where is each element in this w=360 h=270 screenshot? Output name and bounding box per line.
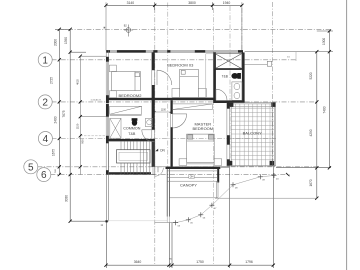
bottom dimension ticks xyxy=(104,264,275,267)
svg-text:5220: 5220 xyxy=(309,72,313,79)
common T&B water closet xyxy=(132,118,138,126)
beam line top right xyxy=(245,63,268,65)
svg-text:BEDROOM 03: BEDROOM 03 xyxy=(167,62,194,67)
top dimension labels xyxy=(127,1,231,5)
step line with spot markers xyxy=(176,176,274,223)
balcony south edge xyxy=(227,165,276,167)
stair treads inside rail xyxy=(140,150,150,163)
grid bubble 6 xyxy=(37,168,51,182)
balcony north wall band xyxy=(229,103,276,107)
svg-text:7675: 7675 xyxy=(62,110,66,117)
master bedroom west wall x=170.6-172.6 xyxy=(171,100,173,167)
grid bubble 4 xyxy=(38,132,52,146)
master bedroom door leaf and swing xyxy=(173,114,187,128)
svg-text:1390: 1390 xyxy=(64,37,68,44)
bedroom2/bedroom03 south wall y=98-100 xyxy=(106,98,216,100)
svg-text:1300: 1300 xyxy=(322,38,326,45)
svg-text:4: 4 xyxy=(43,134,49,145)
svg-text:1100: 1100 xyxy=(161,109,167,112)
svg-text:3140: 3140 xyxy=(127,1,135,5)
spot marker 06 xyxy=(198,212,203,217)
svg-text:2000: 2000 xyxy=(54,39,58,46)
top dimension line xyxy=(106,2,242,52)
svg-text:OH: OH xyxy=(190,176,194,179)
svg-text:BALCONY: BALCONY xyxy=(243,131,262,136)
svg-text:1940: 1940 xyxy=(223,1,231,5)
svg-text:2: 2 xyxy=(42,98,48,109)
svg-text:3640: 3640 xyxy=(134,260,142,264)
balcony tile floor xyxy=(231,104,274,166)
svg-text:COMMON: COMMON xyxy=(123,127,141,131)
svg-text:2400: 2400 xyxy=(53,116,57,123)
grid row 5 dash-dot line xyxy=(37,166,317,168)
spot marker 07 xyxy=(209,203,214,208)
stair south wall y=172.2-174.6 xyxy=(106,172,151,174)
balcony corner posts xyxy=(228,102,276,165)
left dimension chain A x=59.3 xyxy=(55,29,70,174)
grid column dash-dot line x=167.8 xyxy=(167,3,169,169)
master bed xyxy=(187,134,215,164)
right dimension chain outer x=329.4 xyxy=(245,31,333,168)
spot marker 09 xyxy=(258,174,263,179)
svg-text:DN: DN xyxy=(160,149,165,153)
svg-text:900: 900 xyxy=(80,139,84,144)
common T&B lavatory xyxy=(146,118,153,126)
svg-text:1670: 1670 xyxy=(309,179,313,186)
common T&B door xyxy=(142,130,154,142)
svg-text:4290: 4290 xyxy=(309,129,313,136)
bottom dimension line xyxy=(106,166,273,268)
bedroom03 east wall x=213-216 xyxy=(213,52,216,103)
step edge line at y=222.5 xyxy=(155,222,176,224)
small level tick top right xyxy=(295,52,297,61)
north wall solid segments xyxy=(106,50,243,52)
grid row 2 dash-dot line xyxy=(52,101,318,103)
grid row 0 dash-dot line xyxy=(59,28,330,30)
grid column dash-dot line x=213.5 xyxy=(213,8,215,264)
bedroom2 bedside tables xyxy=(109,65,116,72)
spot marker 08 xyxy=(231,182,236,187)
master bedroom SE corner wall stub xyxy=(217,168,219,183)
svg-text:1750: 1750 xyxy=(196,260,204,264)
common T&B south wall y=139.7-141.7 xyxy=(106,139,155,141)
stair handrail xyxy=(117,150,151,163)
bedroom03 bed xyxy=(180,69,199,97)
lower floor west wall below stairs xyxy=(106,175,108,221)
grid column dash-dot line x=155 xyxy=(154,8,156,264)
svg-text:5: 5 xyxy=(28,162,34,173)
svg-text:3800: 3800 xyxy=(188,1,196,5)
bedroom03 door leaf and swing xyxy=(157,70,172,85)
west wall outline xyxy=(106,50,108,174)
west wall solid segments xyxy=(106,57,109,174)
grid column dash-dot line x=242 xyxy=(241,8,243,52)
spot marker 04 xyxy=(272,173,277,178)
left dimension chain B x=70.2 xyxy=(70,29,108,221)
svg-text:1: 1 xyxy=(42,55,48,66)
canopy west double wall xyxy=(167,169,169,217)
canopy OH tag xyxy=(189,175,195,178)
master T&B hatched box xyxy=(215,54,242,69)
stair DN label xyxy=(155,149,158,152)
grid column dash-dot line x=272.6 xyxy=(272,2,274,166)
grid row 6 dash-dot line xyxy=(50,174,290,176)
master T&B water closet xyxy=(231,73,241,79)
svg-text:7400: 7400 xyxy=(322,106,326,113)
common T&B cabinet xyxy=(110,106,142,115)
stair treads xyxy=(121,141,153,174)
spot marker 05 xyxy=(186,217,191,222)
bedroom03 side tables xyxy=(172,89,180,98)
svg-text:3030: 3030 xyxy=(64,195,68,202)
canopy outline xyxy=(167,171,218,198)
left chain B labels (rotated) xyxy=(62,37,68,202)
svg-text:2725: 2725 xyxy=(50,77,54,84)
master T&B south wall xyxy=(216,100,245,103)
svg-text:T&B: T&B xyxy=(222,75,228,79)
right dimension chain inner x=316.8 xyxy=(316,52,318,199)
sheet border line right xyxy=(346,0,348,270)
junction dot lower left xyxy=(106,220,108,222)
master T&B east wall x=242-244.6 xyxy=(242,52,245,103)
tick mark near row0 left xyxy=(104,27,106,29)
svg-text:1796: 1796 xyxy=(245,260,253,264)
master T&B door xyxy=(216,89,227,100)
stairs outline xyxy=(109,141,155,174)
landing door swing to canopy deck xyxy=(155,168,163,176)
master bedside tables xyxy=(179,159,187,166)
balcony east wall xyxy=(271,103,273,166)
north wall outline xyxy=(106,50,243,52)
svg-text:1675: 1675 xyxy=(52,149,56,156)
grid bubble 2 xyxy=(38,95,52,109)
svg-text:T&B: T&B xyxy=(128,132,136,136)
bottom dimension labels xyxy=(134,259,253,265)
terrace edge line y=198.2 xyxy=(215,197,317,199)
top dimension ticks xyxy=(104,4,243,7)
left chain A labels (rotated) xyxy=(50,39,58,173)
grid column dash-dot line x=230 xyxy=(229,6,231,165)
svg-text:1 4 140 4 1: 1 4 140 4 1 xyxy=(91,100,103,102)
left chain A ticks xyxy=(58,28,61,177)
master T&B lavatory counter xyxy=(232,82,242,100)
left chain B ticks xyxy=(69,28,72,223)
grid bubble 1 xyxy=(38,53,52,67)
marker circle on row 0 xyxy=(126,28,131,33)
bedroom03 closet strip along east wall xyxy=(206,54,213,98)
balcony west / master east wall x=226.9-229.7 xyxy=(227,103,230,166)
grid row 1 dash-dot line xyxy=(52,59,297,61)
svg-text:BEDROOM2: BEDROOM2 xyxy=(119,93,143,98)
wall between bedroom2 and bedroom03 x=152-155 xyxy=(152,52,155,166)
svg-text:CANOPY: CANOPY xyxy=(180,183,197,188)
svg-text:1150: 1150 xyxy=(75,123,79,129)
svg-text:4025: 4025 xyxy=(75,79,79,85)
spot marker 03 xyxy=(173,220,178,225)
secondary left dimension chain x=80.3 xyxy=(80,56,106,174)
svg-text:6: 6 xyxy=(41,170,47,181)
column marker on row1 right xyxy=(267,61,271,66)
grid row 4 dash-dot line xyxy=(52,138,277,140)
grid bubble 5 xyxy=(24,160,38,174)
landing / master bedroom south wall y=166.6-169 xyxy=(166,167,221,169)
svg-text:BEDROOM: BEDROOM xyxy=(192,126,213,131)
lower floor hidden edge below stairs xyxy=(109,220,168,222)
master bedroom closet xyxy=(173,104,213,110)
common T&B shower xyxy=(110,118,121,138)
bedroom2 bed xyxy=(112,72,141,91)
